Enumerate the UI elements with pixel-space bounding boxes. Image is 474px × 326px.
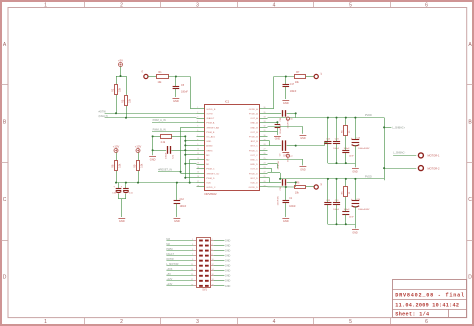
capacitor C16 10nF — [345, 136, 347, 151]
svg-text:20: 20 — [212, 284, 214, 286]
svg-text:18: 18 — [212, 279, 214, 281]
svg-text:24: 24 — [264, 162, 266, 164]
net GND wire — [211, 280, 214, 282]
supply +12V P3 — [136, 149, 140, 153]
net +5V wire — [166, 275, 193, 277]
svg-text:100nF: 100nF — [290, 91, 297, 93]
svg-text:23: 23 — [264, 167, 266, 169]
svg-text:19: 19 — [191, 284, 193, 286]
svg-text:8: 8 — [212, 254, 213, 256]
capacitor C1 — [285, 186, 287, 188]
svg-text:GVDD_C: GVDD_C — [206, 187, 216, 189]
svg-text:5: 5 — [192, 249, 193, 251]
svg-text:PWM_C: PWM_C — [206, 169, 215, 171]
resistor R10 — [345, 179, 347, 187]
capacitor C10 — [125, 183, 127, 189]
wire bst join D — [269, 178, 271, 183]
ground — [282, 100, 289, 102]
svg-text:GVDD_D: GVDD_D — [249, 187, 259, 189]
svg-text:+3V3: +3V3 — [166, 268, 173, 271]
pad small C top — [286, 117, 289, 120]
svg-text:1: 1 — [197, 107, 198, 109]
svg-text:2.2k: 2.2k — [161, 141, 166, 144]
svg-text:100nF: 100nF — [181, 91, 188, 94]
svg-text:3: 3 — [196, 2, 199, 8]
svg-text:3: 3 — [196, 319, 199, 325]
svg-text:16: 16 — [197, 176, 199, 178]
capacitor C21 on VREG — [153, 150, 167, 152]
svg-text:5: 5 — [197, 126, 198, 128]
net PWM wire — [166, 250, 193, 252]
svg-text:PWM_D: PWM_D — [206, 178, 215, 180]
net L_MOTOR wire — [166, 265, 193, 267]
svg-text:11.04.2009 10:41:42: 11.04.2009 10:41:42 — [395, 302, 459, 308]
resistor R3 — [125, 96, 128, 106]
svg-text:PVDD_C: PVDD_C — [249, 150, 258, 152]
svg-text:34: 34 — [264, 116, 266, 118]
wire GND_D stub — [268, 163, 278, 165]
svg-text:GND: GND — [300, 137, 306, 140]
connector SV1 — [197, 238, 211, 292]
svg-text:PVDD_A: PVDD_A — [249, 113, 258, 116]
cluster caps C14 C24 C13 (top) — [327, 117, 329, 119]
svg-text:33: 33 — [264, 121, 266, 123]
svg-text:GND: GND — [225, 249, 231, 252]
capacitor C25 inline — [268, 182, 282, 184]
wire OUT_B to cluster — [296, 145, 325, 147]
net #FAULT wire — [105, 117, 197, 119]
svg-text:IC1: IC1 — [225, 100, 230, 104]
svg-text:DRV8402_08 - final: DRV8402_08 - final — [395, 293, 465, 299]
resistor R1 — [157, 75, 169, 79]
net #OTW wire — [166, 260, 193, 262]
capacitor C19 — [333, 202, 340, 204]
svg-text:4: 4 — [212, 244, 213, 246]
svg-text:17: 17 — [197, 181, 199, 183]
capacitor C12 — [176, 183, 178, 201]
ground — [355, 163, 357, 167]
svg-text:10: 10 — [197, 149, 199, 151]
svg-text:25: 25 — [264, 158, 266, 160]
svg-text:20: 20 — [264, 181, 266, 183]
net FAULT wire — [166, 255, 193, 257]
svg-text:GND: GND — [225, 239, 231, 242]
net GND wire — [211, 250, 214, 252]
resistor R5 — [345, 118, 347, 126]
capacitor C13 bulk — [352, 139, 360, 141]
svg-text:C17: C17 — [290, 84, 295, 86]
svg-text:+5V: +5V — [118, 58, 123, 62]
wire — [116, 76, 118, 85]
svg-text:GND: GND — [300, 168, 306, 171]
svg-text:6: 6 — [212, 249, 213, 251]
svg-text:2: 2 — [120, 319, 123, 325]
svg-text:PWM_B_IN: PWM_B_IN — [153, 128, 166, 131]
svg-text:C: C — [468, 197, 472, 203]
svg-text:+5V: +5V — [166, 273, 171, 276]
resistor R4 2.2k on OC_ADJ — [153, 136, 161, 138]
svg-text:VDD_D: VDD_D — [250, 183, 258, 185]
svg-text:GND: GND — [283, 101, 289, 105]
svg-text:1: 1 — [192, 239, 193, 241]
svg-text:C6: C6 — [290, 119, 292, 121]
svg-text:17: 17 — [191, 279, 193, 281]
capacitor C18 — [324, 202, 331, 204]
svg-text:2: 2 — [120, 2, 123, 8]
svg-text:Sheet: 1/4: Sheet: 1/4 — [395, 311, 429, 317]
svg-text:12: 12 — [212, 264, 214, 266]
svg-text:7: 7 — [197, 135, 198, 137]
ground — [118, 218, 125, 220]
svg-text:GND: GND — [275, 138, 281, 141]
svg-text:GVDD_A: GVDD_A — [249, 108, 259, 111]
svg-text:3: 3 — [192, 244, 193, 246]
capacitor C24 — [333, 141, 340, 143]
svg-text:GND: GND — [283, 219, 289, 223]
net GND wire — [211, 265, 214, 267]
svg-text:4: 4 — [273, 2, 276, 8]
svg-text:+12V: +12V — [113, 144, 120, 148]
svg-text:27: 27 — [264, 149, 266, 151]
svg-text:D: D — [3, 275, 7, 281]
svg-text:11: 11 — [197, 153, 199, 155]
IC IC1 DRV8402 — [197, 100, 268, 197]
net VDD rail wire — [116, 182, 197, 184]
net PVDD rail wire (bottom) — [280, 178, 384, 180]
svg-text:14: 14 — [212, 269, 214, 271]
pad 27 — [314, 74, 318, 78]
resistor R7 — [295, 75, 306, 79]
ground — [355, 224, 357, 228]
net GND wire — [211, 255, 214, 257]
svg-text:13: 13 — [191, 269, 193, 271]
svg-text:OUT_D: OUT_D — [250, 169, 258, 171]
svg-text:GND: GND — [174, 219, 180, 223]
svg-text:10nF: 10nF — [349, 217, 354, 219]
wire GND_C to ground — [268, 159, 303, 161]
frame column ticks top/bottom — [84, 2, 86, 8]
svg-text:C: C — [3, 197, 7, 203]
svg-text:GND_A: GND_A — [250, 122, 258, 125]
pad MOTOR-2 — [418, 166, 423, 171]
net GND wire — [211, 270, 214, 272]
svg-text:C12: C12 — [180, 199, 185, 201]
svg-text:PWM: PWM — [166, 248, 172, 251]
ground — [149, 156, 156, 158]
capacitor C27 10nF — [345, 197, 347, 212]
resistor R8 — [116, 153, 118, 161]
svg-text:DRV8402: DRV8402 — [205, 192, 218, 196]
net M2 wire — [166, 245, 193, 247]
svg-text:8: 8 — [197, 139, 198, 141]
svg-text:1000uF/63V: 1000uF/63V — [358, 209, 370, 211]
svg-text:2: 2 — [212, 239, 213, 241]
resistor R2 — [115, 85, 118, 95]
wire — [126, 76, 128, 95]
svg-text:5: 5 — [349, 319, 352, 325]
svg-text:VREG: VREG — [206, 150, 212, 152]
svg-text:M2: M2 — [166, 243, 170, 246]
bus wires left of IC — [185, 136, 187, 177]
wire bst join A — [269, 141, 271, 146]
svg-text:1000uF/63V: 1000uF/63V — [358, 148, 370, 150]
svg-text:6: 6 — [425, 319, 428, 325]
net +24V wire — [166, 285, 193, 287]
wire MOTOR-2 — [383, 167, 385, 169]
svg-text:BST_C: BST_C — [251, 146, 258, 148]
svg-text:L_SNBAC+: L_SNBAC+ — [392, 126, 405, 129]
svg-text:GND: GND — [150, 157, 156, 161]
net GND wire — [211, 245, 214, 247]
svg-text:OC_ADJ: OC_ADJ — [206, 136, 215, 139]
svg-text:GND_B: GND_B — [250, 127, 258, 129]
net M3 wire — [166, 240, 193, 242]
svg-text:+24V: +24V — [166, 283, 172, 286]
svg-text:GND_C: GND_C — [250, 160, 258, 162]
svg-text:100nF: 100nF — [165, 152, 167, 159]
svg-text:GND: GND — [352, 232, 358, 235]
svg-text:+12V: +12V — [135, 144, 142, 148]
wire — [148, 76, 157, 78]
cluster bottom wire — [327, 205, 329, 224]
svg-text:1: 1 — [44, 319, 47, 325]
svg-text:PWM_A_IN: PWM_A_IN — [153, 119, 166, 122]
pad small C mid — [286, 154, 289, 157]
net L_SNBAC- wire — [393, 155, 416, 157]
svg-text:GND: GND — [225, 270, 231, 273]
svg-text:GND: GND — [225, 255, 231, 258]
svg-text:35: 35 — [264, 112, 266, 114]
svg-text:VDD: VDD — [206, 183, 211, 185]
svg-text:SV1: SV1 — [202, 289, 207, 292]
ground — [300, 135, 307, 137]
svg-text:13: 13 — [197, 162, 199, 164]
svg-text:6: 6 — [425, 2, 428, 8]
svg-text:#RESET_IN: #RESET_IN — [158, 168, 172, 171]
svg-text:3: 3 — [197, 116, 198, 118]
pad 25 — [144, 74, 148, 78]
svg-text:PVDD_D: PVDD_D — [249, 173, 258, 175]
svg-text:4: 4 — [273, 319, 276, 325]
net PVDD rail wire (top) — [295, 113, 297, 117]
svg-text:6: 6 — [197, 130, 198, 132]
ground — [173, 98, 180, 100]
svg-text:9: 9 — [192, 259, 193, 261]
wire GND_A to ground — [268, 122, 278, 124]
svg-text:GND: GND — [225, 285, 231, 288]
svg-text:15: 15 — [197, 172, 199, 174]
capacitor C14 — [324, 141, 331, 143]
supply +12V P2 — [114, 149, 118, 153]
svg-text:100nF: 100nF — [180, 206, 187, 208]
net GND wire — [211, 275, 214, 277]
svg-text:OUT_B: OUT_B — [250, 132, 258, 134]
net GND wire — [211, 240, 214, 242]
svg-text:31: 31 — [264, 130, 266, 132]
svg-text:M3: M3 — [166, 238, 170, 241]
svg-text:#OTW: #OTW — [206, 114, 213, 116]
svg-text:5: 5 — [349, 2, 352, 8]
svg-text:16: 16 — [212, 274, 214, 276]
svg-text:GND: GND — [173, 99, 179, 103]
svg-text:#RESET_CD: #RESET_CD — [206, 173, 219, 175]
svg-text:100nF/16V: 100nF/16V — [280, 124, 282, 134]
wire M2 pullup — [190, 159, 197, 161]
svg-text:OUT_A: OUT_A — [250, 117, 258, 120]
capacitor C5 — [175, 77, 177, 87]
svg-text:26: 26 — [264, 153, 266, 155]
svg-text:C7: C7 — [290, 156, 292, 158]
svg-text:14: 14 — [197, 167, 199, 169]
svg-text:1: 1 — [44, 2, 47, 8]
wire — [306, 186, 314, 188]
svg-text:MOTOR-1: MOTOR-1 — [428, 154, 440, 158]
svg-text:GND: GND — [225, 260, 231, 263]
svg-text:GND: GND — [119, 219, 125, 223]
svg-text:22: 22 — [264, 172, 266, 174]
svg-text:2: 2 — [197, 112, 198, 114]
svg-text:D: D — [468, 275, 472, 281]
svg-text:GVDD_B: GVDD_B — [206, 109, 216, 111]
svg-text:32: 32 — [264, 126, 266, 128]
svg-text:OUT_C: OUT_C — [250, 155, 258, 157]
svg-text:GND: GND — [225, 275, 231, 278]
svg-text:10nF: 10nF — [349, 155, 354, 157]
svg-text:18: 18 — [197, 185, 199, 187]
svg-text:L_SNBAC-: L_SNBAC- — [393, 151, 405, 154]
svg-text:PWM_B: PWM_B — [206, 132, 215, 134]
svg-text:10: 10 — [212, 259, 214, 261]
supply +5V P1 — [119, 63, 123, 67]
svg-text:GND: GND — [352, 170, 358, 173]
capacitor C23 — [275, 124, 281, 126]
wire — [152, 136, 154, 155]
svg-text:GND_D: GND_D — [250, 164, 258, 166]
wire — [118, 183, 120, 189]
svg-text:MOTOR-2: MOTOR-2 — [428, 166, 440, 170]
svg-text:+12V: +12V — [166, 278, 172, 281]
capacitor C20 bulk — [352, 200, 360, 202]
svg-text:PVDD: PVDD — [365, 114, 372, 117]
ground — [174, 218, 181, 220]
wire from GVDD_A — [268, 108, 274, 110]
net GND wire — [211, 260, 214, 262]
svg-text:GND: GND — [225, 280, 231, 283]
wire — [306, 76, 314, 78]
svg-text:GND: GND — [225, 244, 231, 247]
ground small — [282, 152, 289, 154]
wire BST stub — [268, 131, 278, 133]
svg-text:21: 21 — [264, 176, 266, 178]
cluster caps C18 C19 C20 (bottom) — [327, 178, 329, 180]
svg-text:L_MOTOR: L_MOTOR — [166, 263, 178, 266]
net PWM_A_IN wire — [152, 122, 197, 124]
svg-text:11: 11 — [191, 264, 193, 266]
pad MOTOR-1 — [418, 153, 423, 158]
ground — [282, 218, 289, 220]
wire — [120, 67, 122, 77]
wire to pin GVDD_B — [190, 77, 192, 109]
svg-text:GND: GND — [206, 141, 211, 143]
svg-text:100nF: 100nF — [289, 206, 296, 208]
wire PVDD_D to rail — [268, 172, 281, 174]
net snubber output wires (top) — [384, 118, 386, 181]
resistor R9 — [138, 153, 140, 161]
svg-text:28: 28 — [264, 144, 266, 146]
svg-text:7: 7 — [192, 254, 193, 256]
svg-text:100nF/16V: 100nF/16V — [278, 195, 280, 205]
resistor R6 — [295, 186, 306, 189]
svg-text:GND: GND — [225, 265, 231, 268]
svg-text:9: 9 — [197, 144, 198, 146]
svg-text:PVDD_B: PVDD_B — [249, 137, 258, 139]
svg-text:(FAULT): (FAULT) — [99, 115, 108, 118]
wire OUT_D to cluster — [268, 168, 272, 170]
svg-text:2.2uF/16V: 2.2uF/16V — [278, 160, 280, 169]
svg-text:GND: GND — [283, 154, 289, 157]
bus RESET wire — [180, 127, 182, 173]
svg-text:BST_D: BST_D — [251, 178, 258, 180]
capacitor C22 inline on PVDD_A — [268, 113, 282, 115]
net +12V wire — [166, 280, 193, 282]
frame row ticks left/right — [1, 84, 8, 86]
wire GND_B — [268, 126, 303, 128]
svg-text:100nF: 100nF — [344, 209, 351, 211]
svg-text:100nF: 100nF — [344, 148, 351, 150]
svg-text:29: 29 — [264, 139, 266, 141]
net PWM_B_IN wire — [152, 131, 197, 133]
wire GVDD_D module — [295, 182, 297, 187]
svg-text:4: 4 — [197, 121, 198, 123]
capacitor C24 bootstrap inline — [268, 145, 282, 147]
net +3V3 wire — [166, 270, 193, 272]
wire — [168, 76, 190, 78]
svg-text:36: 36 — [264, 107, 266, 109]
svg-text:#OTW: #OTW — [99, 110, 107, 113]
svg-text:15: 15 — [191, 274, 193, 276]
svg-text:#RESET_AB: #RESET_AB — [206, 126, 219, 129]
ground — [300, 166, 307, 168]
net GND wire — [211, 285, 214, 287]
svg-text:19: 19 — [264, 185, 266, 187]
pad 26 — [314, 185, 318, 189]
svg-text:FAULT: FAULT — [166, 253, 174, 256]
net #RESET_IN wire — [158, 171, 181, 173]
svg-text:#FAULT: #FAULT — [206, 117, 215, 120]
svg-text:#OTW: #OTW — [166, 258, 174, 261]
title block — [392, 280, 466, 318]
svg-text:12: 12 — [197, 158, 199, 160]
svg-text:AGND: AGND — [206, 145, 213, 148]
ground — [274, 136, 281, 138]
svg-text:PVDD: PVDD — [365, 176, 372, 179]
svg-text:BST_B: BST_B — [251, 141, 258, 143]
cluster bottom wire — [327, 144, 329, 163]
net #OTW wire — [105, 113, 197, 115]
svg-text:PWM_A: PWM_A — [206, 122, 215, 125]
capacitor C17 — [285, 77, 287, 85]
svg-text:30: 30 — [264, 135, 266, 137]
